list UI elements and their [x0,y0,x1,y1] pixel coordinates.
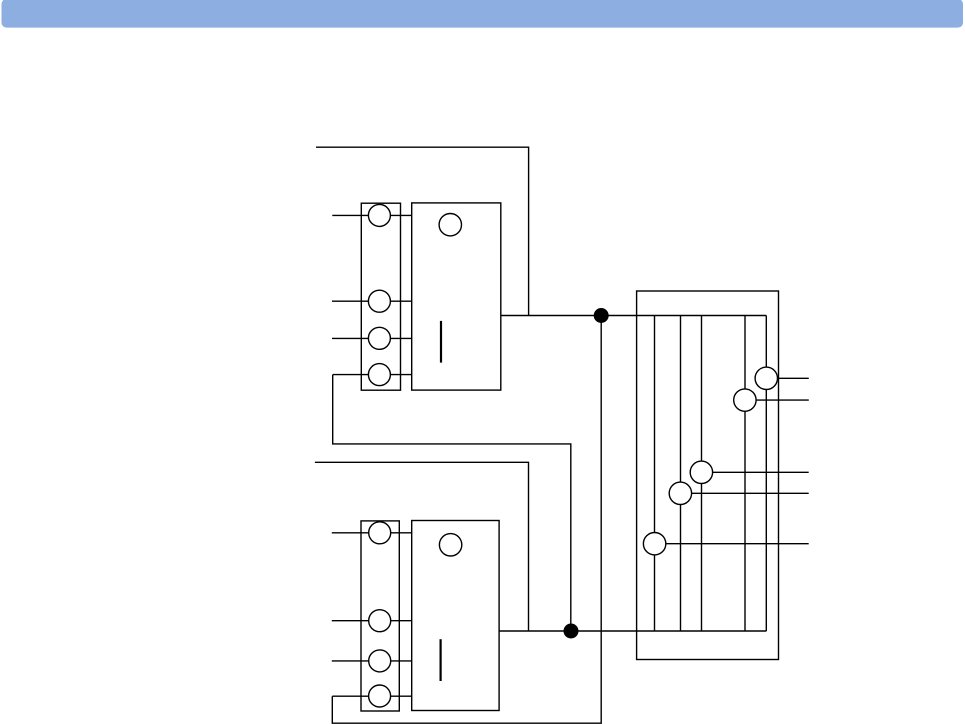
wire branch 4 vertical [744,316,746,632]
wire J2 pin2 [332,620,412,622]
bar mark U1 [440,321,442,363]
wire branch 5 vertical [765,316,767,632]
port circle P3 [690,461,712,483]
wire J1 pin4 [333,374,412,376]
connector J1 body [361,203,400,390]
module U1 body [412,203,501,390]
pin circle J2-1 [369,522,391,544]
wire J1 pin1 [332,214,411,216]
wire top loop to U2 [315,462,529,631]
pin circle J2-3 [369,650,391,672]
pin circle J2-4 [369,685,391,707]
wire J1 pin3 [332,337,412,339]
wire drop from node A to bottom loop [332,316,601,724]
wire top loop to U1 [316,147,529,315]
wire J2 pin1 [332,532,412,534]
pin circle J1-2 [368,290,390,312]
wire output P1 [766,377,809,379]
wire branch 2 vertical [680,316,682,632]
pin circle J2-2 [369,610,391,632]
wire branch 1 vertical [654,316,656,632]
wire output P3 [701,471,808,473]
node A junction dot [594,308,609,323]
header bar [2,0,964,28]
wire U1 output top bus [501,315,767,317]
pin circle J1-1 [368,204,390,226]
port circle P4 [669,482,691,504]
wire J1 pin2 [332,300,412,302]
connector J2 body [361,521,399,711]
indicator circle U2 [439,534,461,556]
node B junction dot [564,624,579,639]
port circle P1 [755,367,777,389]
pin circle J1-4 [368,364,390,386]
wire U2 output bottom bus [499,630,766,632]
bar mark U2 [440,639,442,681]
wire output P5 [655,543,809,545]
wire branch 3 vertical [701,316,703,632]
port circle P5 [643,533,665,555]
wire J1 pin4 to lower bus [333,375,571,631]
wire output P4 [680,492,808,494]
wire J2 pin4 [332,695,411,697]
wire output P2 [745,399,809,401]
pin circle J1-3 [368,327,390,349]
module U2 body [412,521,499,711]
port circle P2 [734,389,756,411]
distribution block body [637,291,779,660]
indicator circle U1 [439,214,461,236]
wire J2 pin3 [332,660,412,662]
